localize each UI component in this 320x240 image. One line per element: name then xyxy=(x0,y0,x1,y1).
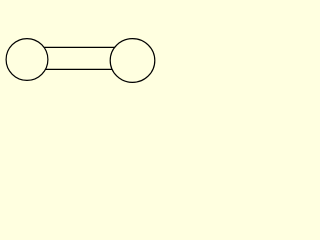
node B xyxy=(110,39,155,83)
wire top edge xyxy=(44,46,115,48)
wire bottom edge xyxy=(45,68,112,70)
node A xyxy=(6,39,48,81)
